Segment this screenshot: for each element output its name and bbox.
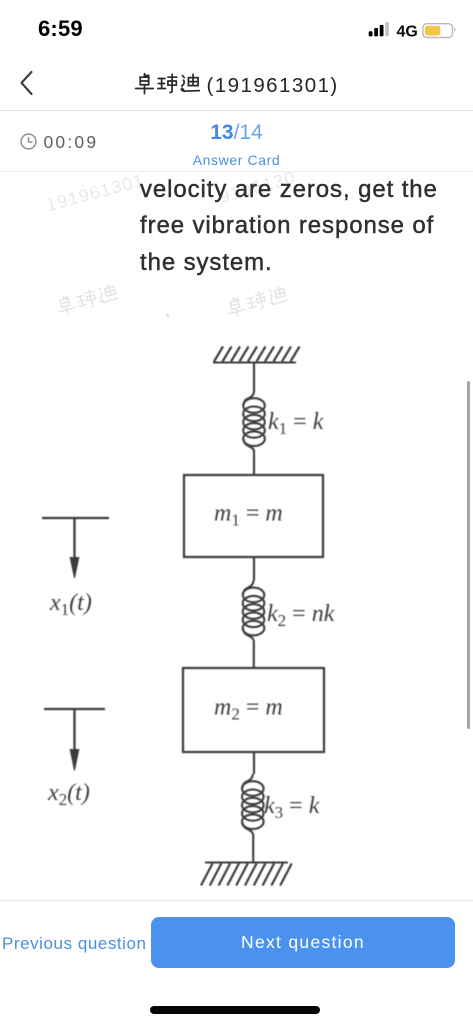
zhuo	[136, 74, 154, 94]
Answer Card	[0, 152, 473, 168]
question text	[140, 172, 438, 282]
scrollbar	[467, 381, 470, 729]
svg-text:k1 = k: k1 = k	[268, 409, 324, 438]
spring k1 coil	[243, 391, 265, 451]
displacement arrow x2	[44, 709, 105, 771]
svg-text:k2 = nk: k2 = nk	[267, 601, 335, 630]
status bar right icons	[360, 15, 460, 43]
Next question button	[151, 917, 455, 968]
progress 13/14	[0, 121, 473, 145]
mass m1 box	[184, 475, 323, 557]
nav title: 卓玮迪 (191961301)	[134, 71, 344, 97]
ceiling line	[213, 361, 296, 363]
spring k3 coil	[242, 774, 264, 834]
timer clock icon	[20, 133, 37, 150]
ceiling hatching	[214, 347, 300, 362]
displacement arrow x1	[42, 518, 109, 578]
wire m1 to spring k2	[253, 557, 255, 580]
svg-text:4G: 4G	[397, 24, 418, 41]
svg-text:m2 = m: m2 = m	[214, 695, 283, 724]
bottom divider	[0, 900, 473, 901]
signal bars	[369, 22, 389, 36]
mass m2 box	[183, 668, 324, 752]
di	[181, 74, 199, 91]
floor line	[205, 861, 288, 863]
watermark ID 1	[44, 170, 147, 216]
timer text	[44, 132, 99, 153]
Previous question link	[2, 934, 147, 954]
watermark name 1	[53, 280, 122, 318]
svg-text:(191961301): (191961301)	[207, 74, 339, 97]
home indicator	[150, 1006, 320, 1014]
wire spring k2 to mass m2	[253, 640, 255, 668]
wire m2 to spring k3	[253, 752, 255, 774]
watermark ID 2	[217, 167, 298, 208]
wire spring k1 to mass m1	[253, 451, 255, 475]
nav divider	[0, 110, 473, 111]
nav back chevron	[18, 70, 36, 98]
faint watermark dot	[166, 314, 169, 317]
wire ceiling to spring k1	[253, 363, 255, 392]
timer bar divider	[0, 171, 473, 172]
spring k2 coil	[243, 580, 265, 640]
battery	[423, 24, 456, 38]
svg-text:x1(t): x1(t)	[49, 590, 92, 619]
svg-text:m1 = m: m1 = m	[214, 501, 283, 530]
wei	[158, 74, 177, 92]
svg-text:x2(t): x2(t)	[47, 780, 90, 809]
floor hatching	[201, 864, 292, 886]
watermark name 2	[223, 282, 292, 320]
status bar time	[38, 16, 83, 42]
svg-text:k3 = k: k3 = k	[264, 793, 320, 822]
wire spring k3 to floor	[252, 834, 254, 863]
